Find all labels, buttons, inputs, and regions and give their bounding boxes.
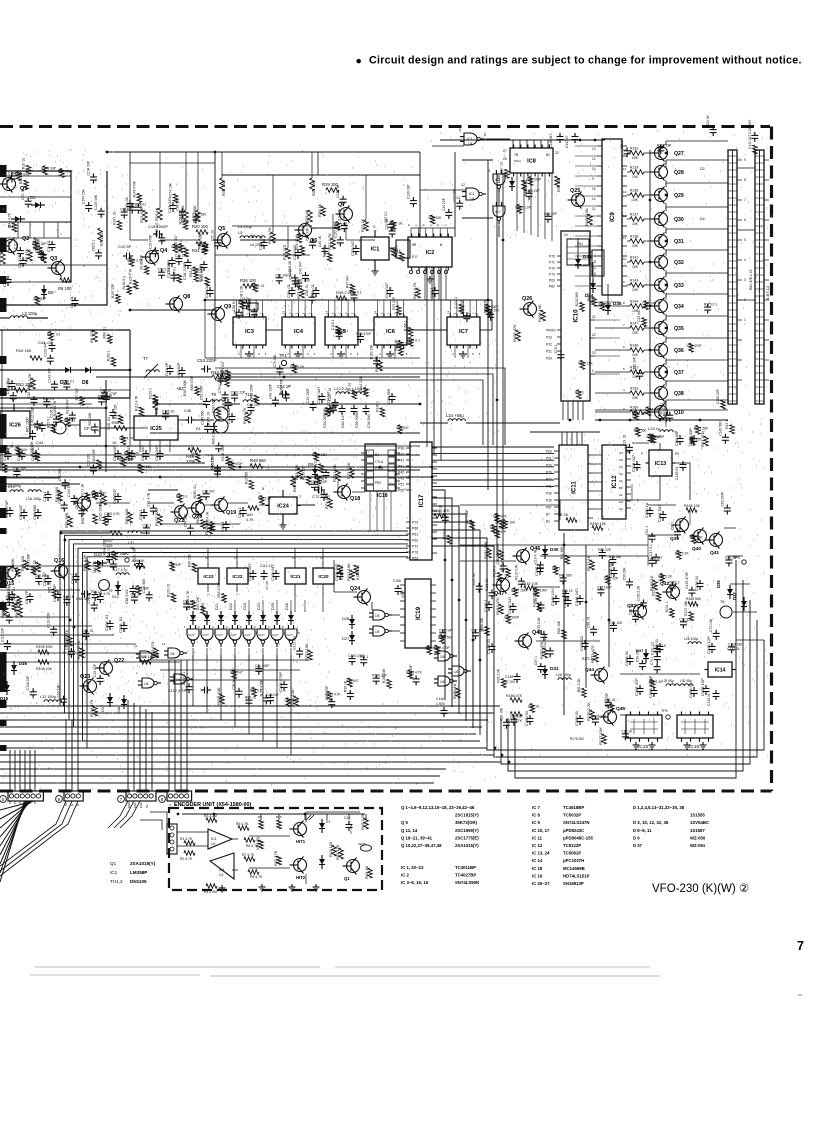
wire between dividers bbox=[266, 329, 282, 331]
svg-text:Q32: Q32 bbox=[674, 260, 684, 266]
gate pair left2 bbox=[142, 678, 154, 688]
svg-text:R1 4.7K: R1 4.7K bbox=[180, 837, 193, 841]
wire column links bbox=[577, 238, 579, 255]
svg-text:C117 22P: C117 22P bbox=[604, 577, 619, 581]
svg-text:C48 1K: C48 1K bbox=[63, 595, 75, 599]
wire bbox=[0, 397, 130, 399]
svg-text:C105 047: C105 047 bbox=[334, 563, 339, 581]
svg-text:14: 14 bbox=[324, 310, 328, 314]
encoder pin connector bbox=[167, 824, 177, 854]
junction dots bbox=[106, 151, 109, 154]
diode D20 bbox=[204, 615, 210, 621]
svg-text:C107 .01: C107 .01 bbox=[328, 387, 332, 401]
wires from bottom bus into loops bbox=[434, 740, 480, 742]
op-amp IC1a bbox=[208, 829, 232, 849]
resistor R7 100 bbox=[98, 228, 103, 242]
transistor Q36 bbox=[655, 344, 668, 357]
mid rails under IC25 bbox=[0, 445, 420, 447]
svg-text:1S1555: 1S1555 bbox=[690, 813, 705, 818]
wire bbox=[389, 247, 396, 249]
svg-text:R53 4.7K: R53 4.7K bbox=[205, 511, 209, 526]
svg-text:10K: 10K bbox=[632, 331, 639, 335]
svg-text:P0: P0 bbox=[8, 800, 12, 804]
svg-text:14: 14 bbox=[373, 310, 377, 314]
svg-text:R37 22P: R37 22P bbox=[392, 296, 396, 310]
svg-text:C10 5P: C10 5P bbox=[118, 244, 132, 249]
emitter drops Q column bbox=[665, 165, 667, 168]
svg-text:B1: B1 bbox=[546, 520, 550, 524]
svg-text:C153 01: C153 01 bbox=[624, 650, 629, 666]
svg-text:C35 560: C35 560 bbox=[58, 469, 62, 482]
svg-text:470P: 470P bbox=[401, 589, 405, 598]
wire bbox=[0, 369, 62, 371]
schematic dashed border top bbox=[0, 125, 770, 128]
svg-text:C132 047: C132 047 bbox=[316, 386, 321, 404]
svg-text:C26 047: C26 047 bbox=[267, 693, 280, 697]
wire rails mid bbox=[0, 462, 205, 464]
svg-text:IC 19: IC 19 bbox=[532, 873, 543, 878]
horizontals upper turning down bbox=[215, 368, 505, 445]
wires right block bbox=[540, 555, 648, 557]
resistor R107 47K bbox=[18, 606, 23, 617]
svg-text:C135 01: C135 01 bbox=[707, 693, 711, 706]
svg-text:C48 100P: C48 100P bbox=[268, 383, 272, 398]
capacitor C104 .01 bbox=[109, 620, 111, 624]
svg-text:C31 047: C31 047 bbox=[384, 282, 389, 298]
loop inner verticals bbox=[465, 560, 467, 718]
wire bus bbox=[60, 531, 408, 620]
svg-text:10K: 10K bbox=[632, 175, 639, 179]
svg-text:C33 1: C33 1 bbox=[429, 287, 434, 298]
svg-text:Q36: Q36 bbox=[674, 348, 684, 354]
transistor Q34 bbox=[655, 300, 668, 313]
svg-text:10K: 10K bbox=[632, 375, 639, 379]
svg-text:C51 1: C51 1 bbox=[645, 526, 649, 535]
svg-text:T7: T7 bbox=[143, 356, 149, 361]
photo transistor HIT1 bbox=[294, 823, 307, 836]
resistor R80 56K bbox=[68, 516, 73, 527]
svg-text:R130 2.2K: R130 2.2K bbox=[537, 617, 541, 633]
svg-text:R143·: R143· bbox=[630, 279, 639, 283]
inductor L24 bbox=[448, 419, 466, 421]
svg-text:47 10V: 47 10V bbox=[265, 580, 269, 590]
capacitor C68 047 bbox=[117, 493, 119, 497]
wires Q17 row bbox=[0, 477, 60, 479]
svg-text:P63: P63 bbox=[412, 557, 418, 561]
capacitor C48 bbox=[185, 419, 189, 421]
verticals right block bbox=[559, 505, 561, 520]
svg-text:IC15: IC15 bbox=[638, 744, 648, 750]
svg-text:P52: P52 bbox=[398, 489, 404, 493]
svg-text:PE0: PE0 bbox=[375, 481, 381, 485]
transistor Q38 bbox=[655, 387, 668, 400]
resistor R123 10K bbox=[308, 650, 313, 660]
svg-text:C19 2.2K: C19 2.2K bbox=[6, 595, 21, 599]
svg-text:1: 1 bbox=[592, 369, 594, 373]
IC IC7 bbox=[447, 317, 480, 345]
svg-text:C36 1K: C36 1K bbox=[175, 254, 187, 258]
gate pair left1 bbox=[140, 651, 152, 661]
svg-text:R10: R10 bbox=[276, 815, 282, 819]
svg-text:C26 10K: C26 10K bbox=[500, 707, 504, 721]
svg-text:R172 1K: R172 1K bbox=[586, 555, 591, 571]
svg-text:P72: P72 bbox=[412, 521, 418, 525]
svg-text:IC2: IC2 bbox=[426, 250, 435, 256]
wire bbox=[205, 454, 420, 456]
svg-text:R137·: R137· bbox=[630, 213, 639, 217]
gate 7 row bbox=[271, 629, 283, 640]
svg-text:C23 047: C23 047 bbox=[637, 309, 641, 322]
svg-text:R87 .01: R87 .01 bbox=[500, 162, 504, 174]
svg-text:Q45: Q45 bbox=[616, 706, 625, 712]
capacitor C159 01 bbox=[579, 715, 581, 719]
encoder wires bbox=[177, 831, 208, 833]
svg-text:P72: P72 bbox=[549, 267, 555, 271]
capacitor C109 047 bbox=[252, 570, 254, 574]
svg-text:R24 1K: R24 1K bbox=[91, 590, 103, 594]
svg-text:Q25: Q25 bbox=[570, 188, 580, 194]
long verticals from IC8 region down bbox=[487, 160, 489, 490]
wire bbox=[156, 403, 206, 405]
svg-text:R9: R9 bbox=[258, 815, 262, 819]
svg-text:D25: D25 bbox=[271, 603, 275, 610]
IC IC23 bbox=[198, 568, 219, 584]
svg-text:C141 15K: C141 15K bbox=[543, 634, 547, 649]
svg-text:L3 100μ: L3 100μ bbox=[22, 311, 38, 316]
svg-text:R112 100P: R112 100P bbox=[30, 405, 34, 422]
svg-text:R45 15K: R45 15K bbox=[187, 553, 191, 567]
svg-text:C66 1K: C66 1K bbox=[562, 589, 574, 593]
svg-text:C146 047: C146 047 bbox=[549, 134, 553, 148]
test point TP4 bbox=[666, 715, 670, 719]
schematic dashed border bottom bbox=[0, 789, 772, 792]
capacitor C152 01 bbox=[584, 640, 586, 644]
fan from connector2 bbox=[0, 801, 66, 866]
svg-text:B: B bbox=[407, 224, 411, 226]
trimmer T7 bbox=[146, 370, 159, 372]
svg-text:C75 10K: C75 10K bbox=[273, 354, 277, 368]
svg-text:R166 15K: R166 15K bbox=[179, 209, 183, 224]
svg-text:C52 100P: C52 100P bbox=[200, 385, 204, 400]
resistor R72 2.2K bbox=[350, 468, 355, 478]
top-mid rails bbox=[130, 162, 215, 164]
svg-text:Q1: Q1 bbox=[110, 861, 117, 866]
svg-text:TC4011BP: TC4011BP bbox=[455, 865, 476, 870]
resistor R4 2.2K bbox=[1, 252, 6, 264]
svg-text:TC9122P: TC9122P bbox=[563, 843, 581, 848]
svg-text:B 2K: B 2K bbox=[560, 513, 569, 517]
svg-text:C147 047: C147 047 bbox=[507, 596, 512, 614]
svg-text:C21 100P: C21 100P bbox=[255, 664, 270, 668]
svg-text:R24 2.2K: R24 2.2K bbox=[290, 365, 305, 369]
svg-text:R107 22P: R107 22P bbox=[111, 283, 115, 298]
svg-text:C136 1K: C136 1K bbox=[162, 409, 176, 413]
wire bbox=[0, 445, 190, 447]
svg-text:R17 0.1: R17 0.1 bbox=[176, 494, 188, 498]
svg-text:R30 1K: R30 1K bbox=[317, 203, 322, 217]
wires under IC24 row bbox=[148, 529, 420, 531]
svg-text:C22 047: C22 047 bbox=[350, 240, 355, 256]
svg-text:R2 4.7K: R2 4.7K bbox=[180, 857, 193, 861]
resistor R111 47K bbox=[68, 636, 73, 646]
svg-text:R6 100: R6 100 bbox=[58, 286, 72, 291]
resistor R147 10K bbox=[630, 326, 644, 331]
svg-text:R47: R47 bbox=[106, 539, 113, 543]
resistor R136 10K bbox=[630, 193, 644, 198]
node rail bbox=[0, 221, 71, 223]
svg-text:T8: T8 bbox=[228, 402, 233, 407]
svg-text:R34 10K: R34 10K bbox=[196, 596, 200, 610]
wire bbox=[0, 483, 80, 485]
svg-text:R113 4.7K: R113 4.7K bbox=[134, 395, 138, 411]
svg-text:IC22: IC22 bbox=[232, 574, 242, 580]
svg-text:R131 1: R131 1 bbox=[665, 602, 669, 613]
resistor R138 10K bbox=[630, 239, 644, 244]
svg-text:R132·: R132· bbox=[630, 147, 639, 151]
resistor R23 4K bbox=[308, 210, 313, 222]
svg-text:D21: D21 bbox=[215, 603, 219, 610]
svg-text:C93 0.1: C93 0.1 bbox=[652, 584, 656, 596]
wire rails right mid bbox=[595, 419, 728, 421]
resistor R66 2.2K bbox=[102, 494, 107, 505]
svg-text:C30 047: C30 047 bbox=[154, 445, 159, 461]
svg-text:μPD8243C: μPD8243C bbox=[563, 828, 584, 833]
gate 1 row bbox=[187, 629, 199, 640]
svg-text:R99 33P: R99 33P bbox=[599, 303, 613, 307]
svg-text:R137 .01: R137 .01 bbox=[113, 211, 117, 225]
svg-text:C23 .01: C23 .01 bbox=[211, 230, 215, 242]
resistor R143 10K bbox=[630, 283, 644, 288]
gate IC1d bbox=[493, 206, 505, 217]
diode D17 bbox=[107, 697, 113, 703]
svg-text:C28 .01: C28 .01 bbox=[286, 283, 291, 298]
svg-text:Q19: Q19 bbox=[226, 510, 236, 516]
svg-text:5: 5 bbox=[459, 128, 461, 132]
gate IC1c bbox=[493, 174, 505, 185]
resistor R176 2.2K bbox=[590, 710, 595, 720]
svg-text:Q7: Q7 bbox=[338, 202, 345, 208]
svg-text:C142 33P: C142 33P bbox=[48, 367, 52, 382]
svg-text:2SC1775(E): 2SC1775(E) bbox=[455, 835, 479, 840]
svg-text:14: 14 bbox=[281, 310, 285, 314]
resistor R14 120 bbox=[339, 848, 344, 859]
svg-text:R41 4.7K: R41 4.7K bbox=[412, 282, 417, 299]
svg-text:C66 .01: C66 .01 bbox=[305, 284, 309, 296]
svg-text:R62 560: R62 560 bbox=[196, 511, 200, 524]
diode D35 bbox=[605, 305, 611, 311]
svg-text:6: 6 bbox=[484, 133, 486, 137]
svg-text:Q1: Q1 bbox=[344, 876, 350, 881]
loop top connections right bbox=[736, 639, 764, 641]
svg-text:D 9: D 9 bbox=[633, 835, 640, 840]
svg-text:C18 4.7K: C18 4.7K bbox=[534, 549, 538, 564]
gate pair B bbox=[438, 676, 450, 686]
capacitor C144 047 bbox=[567, 597, 569, 601]
capacitor C15 bbox=[153, 233, 157, 235]
wire bus bbox=[78, 548, 408, 620]
coil T10 bbox=[243, 400, 256, 402]
diode D28 bbox=[349, 619, 355, 625]
resistor R99 bbox=[555, 176, 560, 187]
svg-text:Q23: Q23 bbox=[80, 674, 90, 680]
IC IC5 bbox=[325, 317, 358, 345]
svg-text:C159 01: C159 01 bbox=[574, 710, 579, 726]
capacitor C65 047 bbox=[23, 509, 25, 513]
svg-text:Q6: Q6 bbox=[310, 238, 317, 244]
wires to Q column bbox=[626, 152, 628, 154]
svg-text:B: B bbox=[436, 224, 440, 226]
svg-text:IC12: IC12 bbox=[611, 475, 618, 489]
resistor R168 1K bbox=[653, 580, 658, 590]
wire bbox=[627, 171, 630, 173]
transistor Q21 bbox=[175, 506, 188, 519]
svg-text:C23 100P: C23 100P bbox=[597, 585, 612, 589]
svg-text:R160 .01: R160 .01 bbox=[193, 485, 197, 499]
svg-text:1kΩ: 1kΩ bbox=[246, 513, 253, 517]
wire bbox=[627, 327, 630, 329]
svg-text:C60 33P: C60 33P bbox=[674, 430, 679, 446]
resistor R37 150 bbox=[300, 288, 305, 298]
capacitor C30 .01 bbox=[263, 239, 265, 243]
wire bbox=[627, 194, 630, 196]
resistor R45 bbox=[291, 476, 296, 487]
wire bbox=[627, 261, 630, 263]
svg-text:C15 470P: C15 470P bbox=[148, 234, 152, 249]
resistor R121 10K bbox=[350, 570, 355, 580]
svg-text:R41 560: R41 560 bbox=[559, 574, 572, 578]
svg-text:C56 33P: C56 33P bbox=[306, 227, 310, 241]
svg-text:9: 9 bbox=[744, 158, 746, 162]
transformer T8 bbox=[214, 407, 228, 421]
svg-text:R79 10K: R79 10K bbox=[429, 216, 443, 220]
svg-text:L30 45μ: L30 45μ bbox=[680, 679, 692, 683]
svg-text:R32 33P: R32 33P bbox=[690, 535, 704, 539]
capacitor C52 100P bbox=[231, 413, 233, 417]
svg-text:C81 470P: C81 470P bbox=[325, 685, 329, 700]
svg-text:P34: P34 bbox=[546, 478, 552, 482]
svg-text:R72 2.2K: R72 2.2K bbox=[346, 462, 351, 479]
capacitor C22 047 bbox=[355, 245, 357, 249]
svg-text:1/4: 1/4 bbox=[470, 197, 475, 201]
capacitor C71 1 bbox=[47, 491, 49, 495]
svg-text:D12: D12 bbox=[112, 595, 119, 599]
svg-text:R145 470P: R145 470P bbox=[132, 180, 136, 197]
svg-text:C160 1μ: C160 1μ bbox=[644, 502, 649, 518]
svg-text:R4 2.2M: R4 2.2M bbox=[204, 890, 217, 894]
verticals above connector 1 bbox=[9, 750, 11, 791]
capacitor C66 680 bbox=[37, 509, 39, 513]
svg-text:P40: P40 bbox=[398, 453, 404, 457]
svg-text:L5: L5 bbox=[238, 230, 243, 235]
svg-text:R30 560: R30 560 bbox=[634, 428, 647, 432]
svg-text:C71 1: C71 1 bbox=[42, 491, 47, 502]
svg-text:R11 .01: R11 .01 bbox=[347, 383, 351, 394]
capacitor C126 12P bbox=[711, 643, 713, 647]
svg-text:C116 2.2K: C116 2.2K bbox=[47, 612, 51, 628]
transistor Q18 bbox=[338, 486, 351, 499]
svg-text:Q24: Q24 bbox=[350, 586, 360, 592]
resistor R54 bbox=[153, 398, 158, 410]
horizontal big bundle bottom (12 lines) bbox=[0, 705, 500, 707]
svg-text:C89 15K: C89 15K bbox=[35, 574, 49, 578]
svg-text:Q28: Q28 bbox=[674, 170, 684, 176]
IC IC4 bbox=[282, 317, 315, 345]
svg-text:7: 7 bbox=[797, 939, 804, 953]
svg-text:C77 4.7K: C77 4.7K bbox=[128, 203, 143, 207]
svg-text:1/6: 1/6 bbox=[144, 682, 149, 686]
svg-text:C78 10K: C78 10K bbox=[183, 513, 187, 527]
svg-text:Q37: Q37 bbox=[674, 370, 684, 376]
mid rails long bbox=[0, 466, 432, 468]
svg-text:R45 2.2K: R45 2.2K bbox=[258, 496, 273, 500]
svg-text:μPC1037H: μPC1037H bbox=[563, 858, 584, 863]
svg-text:1/4: 1/4 bbox=[218, 638, 223, 642]
svg-text:IC2?: IC2? bbox=[273, 633, 279, 637]
svg-text:C3: C3 bbox=[619, 465, 623, 469]
gate pair A bbox=[438, 651, 450, 661]
capacitor C148 01 bbox=[491, 643, 493, 647]
svg-text:C49 22P: C49 22P bbox=[493, 530, 507, 534]
diode D6 bbox=[41, 289, 47, 295]
svg-text:R83 33P: R83 33P bbox=[33, 297, 47, 301]
svg-text:C112 560: C112 560 bbox=[192, 213, 206, 217]
svg-text:D27: D27 bbox=[342, 636, 350, 641]
capacitor C155 15P bbox=[705, 685, 707, 689]
svg-text:Q31: Q31 bbox=[674, 239, 684, 245]
resistor R27 470 bbox=[286, 248, 291, 259]
svg-text:R172 .01: R172 .01 bbox=[47, 332, 61, 336]
resistor R133 10K bbox=[630, 170, 644, 175]
svg-text:14: 14 bbox=[446, 310, 450, 314]
svg-text:R13 560: R13 560 bbox=[244, 472, 248, 485]
svg-text:C139 10K: C139 10K bbox=[591, 715, 606, 719]
diode D9 bbox=[312, 469, 318, 475]
svg-text:1SV54BC: 1SV54BC bbox=[690, 820, 709, 825]
capacitor C156 01 bbox=[693, 687, 695, 691]
IC15/16 details bbox=[630, 738, 632, 742]
crystal X2 bbox=[248, 303, 258, 310]
svg-text:C66 680: C66 680 bbox=[32, 504, 37, 520]
transistor Q32 bbox=[655, 256, 668, 269]
svg-text:C120 1K: C120 1K bbox=[333, 225, 337, 239]
svg-text:P30: P30 bbox=[398, 447, 404, 451]
wire bbox=[148, 489, 178, 491]
svg-text:1/6: 1/6 bbox=[142, 655, 147, 659]
svg-text:C116: C116 bbox=[436, 697, 444, 701]
ABCD box bbox=[592, 250, 604, 276]
transistor Q35 bbox=[655, 322, 668, 335]
svg-text:R32 0.1: R32 0.1 bbox=[43, 397, 55, 401]
svg-text:WZ-050: WZ-050 bbox=[690, 835, 706, 840]
capacitor C157 47P bbox=[639, 685, 641, 689]
svg-text:5: 5 bbox=[744, 238, 746, 242]
svg-text:27: 27 bbox=[503, 149, 507, 153]
svg-text:C127 2.2K: C127 2.2K bbox=[288, 260, 292, 276]
transistor Q28 bbox=[655, 166, 668, 179]
svg-text:R81 47K x 12: R81 47K x 12 bbox=[749, 269, 753, 290]
svg-text:13: 13 bbox=[592, 147, 596, 151]
svg-text:R25 0.1: R25 0.1 bbox=[46, 416, 50, 428]
svg-text:R105 10K: R105 10K bbox=[382, 668, 386, 683]
svg-text:C87 7P: C87 7P bbox=[24, 590, 29, 604]
svg-text:7: 7 bbox=[236, 593, 238, 597]
svg-text:C126 1K: C126 1K bbox=[653, 644, 667, 648]
svg-text:R164 0.1: R164 0.1 bbox=[407, 338, 421, 342]
svg-text:IC17: IC17 bbox=[419, 494, 425, 507]
svg-text:IC8: IC8 bbox=[527, 159, 536, 165]
wire bbox=[627, 284, 630, 286]
svg-text:R23 047: R23 047 bbox=[174, 235, 178, 248]
